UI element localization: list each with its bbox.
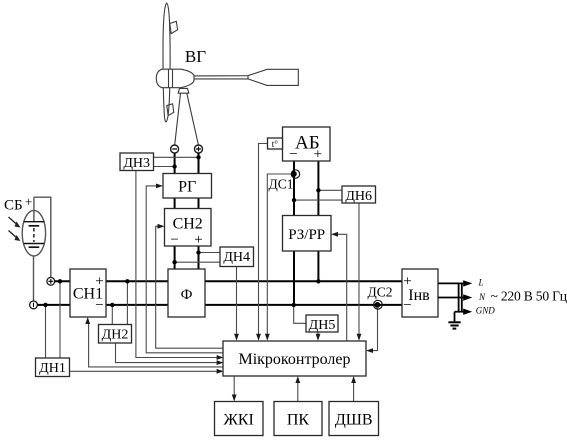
svg-text:ДН6: ДН6	[345, 189, 372, 204]
svg-text:+: +	[403, 274, 411, 290]
svg-text:L: L	[478, 278, 484, 288]
svg-text:Ф: Ф	[181, 287, 193, 303]
svg-text:СН2: СН2	[173, 216, 203, 233]
svg-text:ДН4: ДН4	[223, 250, 250, 265]
svg-text:ВГ: ВГ	[185, 47, 206, 66]
svg-text:ДН1: ДН1	[39, 361, 66, 376]
svg-text:−: −	[403, 298, 411, 314]
svg-text:Мікроконтролер: Мікроконтролер	[238, 351, 350, 368]
svg-text:ДН5: ДН5	[309, 318, 336, 333]
svg-text:+: +	[95, 274, 103, 290]
svg-text:ДШВ: ДШВ	[335, 412, 373, 429]
svg-text:+: +	[25, 194, 32, 209]
svg-text:ДС2: ДС2	[368, 285, 393, 300]
svg-text:−: −	[95, 298, 103, 314]
svg-text:+: +	[194, 232, 202, 248]
svg-text:GND: GND	[476, 306, 496, 316]
svg-text:РГ: РГ	[178, 179, 196, 196]
svg-text:N: N	[478, 292, 486, 302]
svg-text:ПК: ПК	[287, 412, 310, 429]
svg-text:РЗ/РР: РЗ/РР	[288, 227, 325, 243]
svg-text:~ 220 В 50 Гц: ~ 220 В 50 Гц	[491, 289, 567, 304]
svg-text:ДН3: ДН3	[123, 156, 150, 171]
svg-text:+: +	[314, 147, 322, 163]
svg-text:ДН2: ДН2	[102, 328, 129, 343]
svg-text:−: −	[289, 147, 297, 163]
svg-text:ЖКІ: ЖКІ	[224, 412, 254, 429]
svg-text:СБ: СБ	[4, 198, 23, 214]
svg-text:t°: t°	[272, 139, 279, 149]
svg-text:ДС1: ДС1	[269, 177, 294, 192]
svg-text:−: −	[170, 232, 178, 248]
